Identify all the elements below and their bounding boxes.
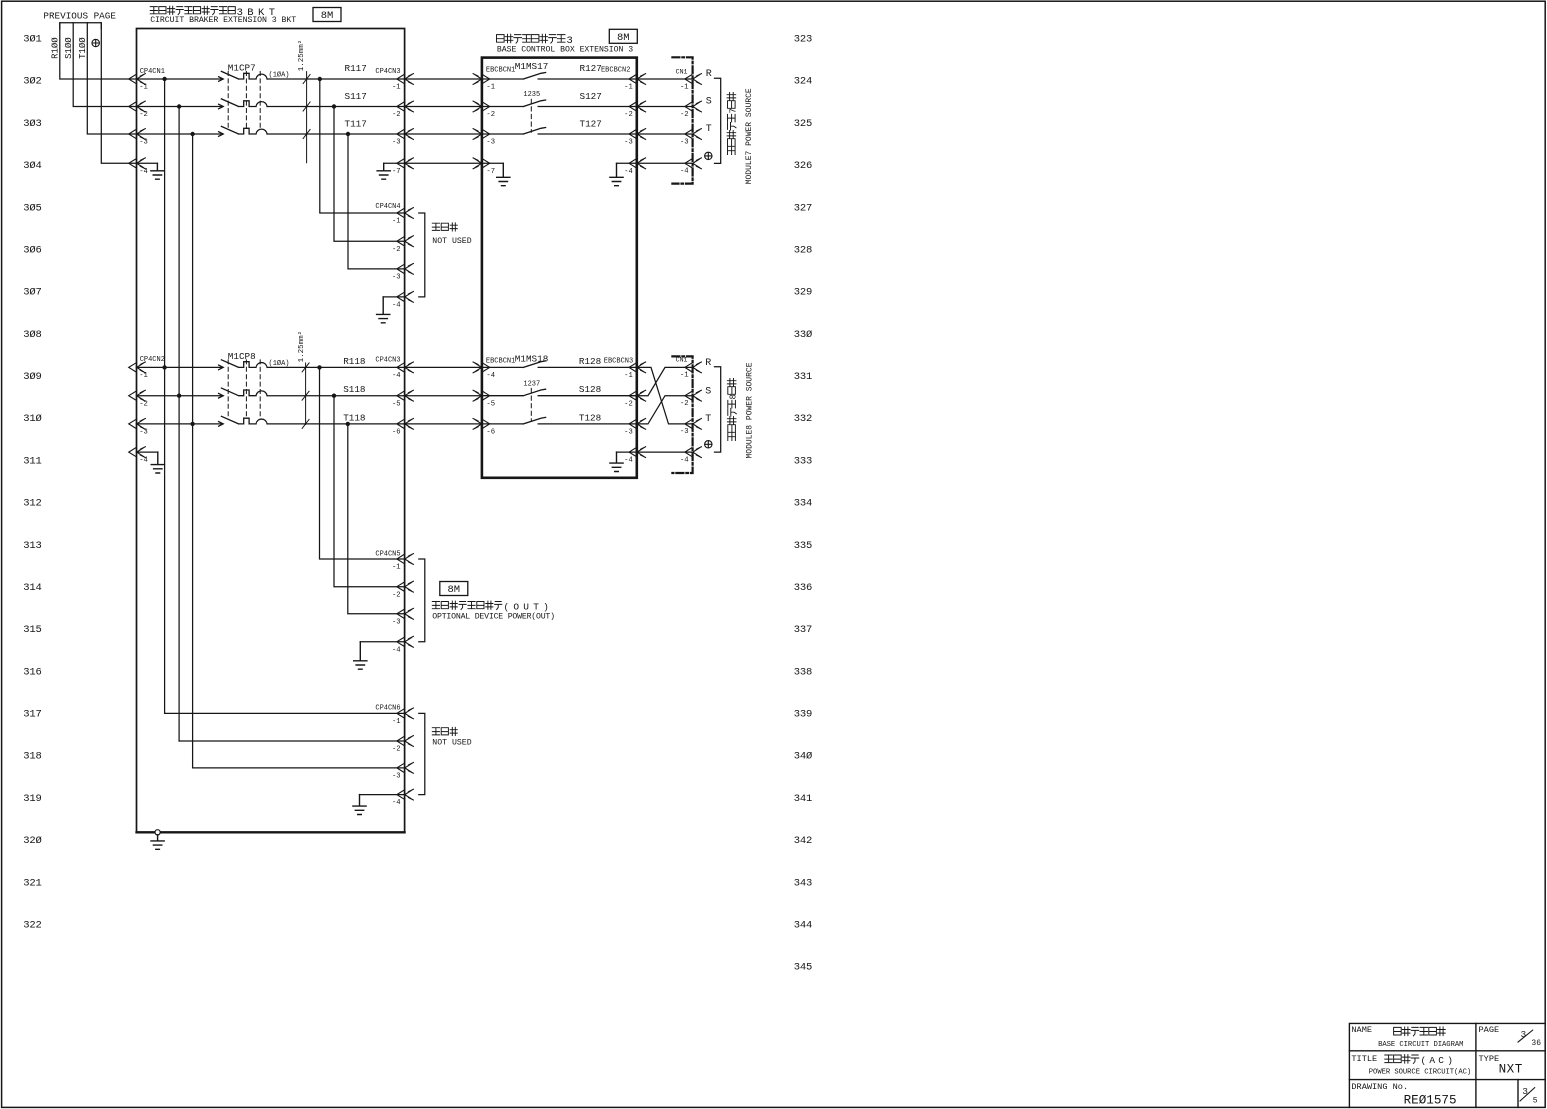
svg-text:-7: -7 [486,168,495,176]
svg-text:-4: -4 [486,372,495,380]
base control box extension outline (thick) [482,58,637,478]
svg-text:3Ø6: 3Ø6 [23,244,41,256]
junction S117 tap [177,104,181,108]
label module8 power source (japanese, rotated) [727,379,738,441]
svg-text:8: 8 [729,394,739,399]
circuit breaker M1CP8 (3-pole) [219,360,268,370]
ground at CP4CN2-4 [151,452,164,473]
connector CN1 module7 pin -4 [685,158,702,169]
ground at CP4CN1-4 [151,163,164,179]
connector CP4CN3 pin -1 [397,74,414,85]
svg-text:-1: -1 [680,372,689,380]
svg-text:-2: -2 [680,111,689,119]
svg-text:-4: -4 [139,168,148,176]
svg-text:BASE CIRCUIT DIAGRAM: BASE CIRCUIT DIAGRAM [1378,1041,1463,1049]
circuit breaker extension box outline [137,29,405,833]
svg-text:CP4CN4: CP4CN4 [375,203,400,211]
connector CP4CN4 pin -4 [397,292,414,303]
CP4CN1-4 ground stub [137,162,158,164]
svg-text:NOT USED: NOT USED [432,237,471,246]
svg-text:-1: -1 [139,372,148,380]
connector CP4CN1 pin -3 [129,129,146,140]
wire R118 segment [267,366,405,368]
connector CN1 module7 pin -2 [685,101,702,112]
connector CP4CN3 pin -6 [397,419,414,430]
connector CP4CN1 pin -4 [129,158,146,169]
svg-text:DRAWING No.: DRAWING No. [1351,1082,1408,1092]
svg-text:34Ø: 34Ø [794,751,812,763]
svg-text:M1CP8: M1CP8 [228,351,256,362]
wire EBCBCN3-4 to CN1-4 [637,451,693,453]
svg-text:1237: 1237 [523,380,540,388]
contactor M1MS18 pole T [482,417,637,424]
svg-text:-7: -7 [392,168,401,176]
svg-text:R118: R118 [343,356,365,367]
svg-text:T: T [705,414,711,425]
svg-text:-1: -1 [392,84,401,92]
svg-text:3Ø9: 3Ø9 [23,371,41,383]
svg-text:(AC): (AC) [1421,1055,1457,1066]
svg-text:EBCBCN3: EBCBCN3 [604,358,633,366]
EBCBCN2-4 ground stub [617,162,637,164]
svg-text:3: 3 [1521,1029,1527,1040]
svg-text:-3: -3 [392,274,401,282]
contactor M1MS17 pole S [482,100,637,107]
svg-text:-4: -4 [392,646,401,654]
svg-text:326: 326 [794,160,812,172]
svg-text:-3: -3 [139,139,148,147]
title block column divider [1475,1023,1477,1107]
svg-text:7: 7 [728,108,738,113]
svg-text:-2: -2 [392,246,401,254]
connector EBCBCN2 pin -1 [629,74,646,85]
svg-text:-3: -3 [680,138,689,146]
label not-used (japanese) CP4CN6 [432,727,457,735]
wire tap R vertical to CP4CN6-1 [164,79,166,713]
wire EBCBCN2-2 to CN1-2 [637,106,693,108]
svg-text:315: 315 [23,624,41,636]
name japanese: base circuit diagram [1394,1027,1446,1036]
module7 CN1 boundary (dash-dot) [672,57,692,183]
connector EBCBCN1 pin -3 [473,129,490,140]
svg-text:318: 318 [23,751,41,763]
svg-text:-2: -2 [139,400,148,408]
bracket CP4CN5 optional power [419,559,425,642]
svg-text:-5: -5 [486,400,495,408]
svg-text:343: 343 [794,877,812,889]
wire R117-R127 between boxes [405,78,482,80]
wire tap R horizontal to CP4CN6-1 [165,712,405,714]
svg-text:-3: -3 [392,618,401,626]
svg-text:-1: -1 [392,564,401,572]
svg-text:1.25mm²: 1.25mm² [297,331,306,363]
svg-text:327: 327 [794,202,812,214]
connector CP4CN6 pin -4 [397,789,414,800]
svg-text:335: 335 [794,540,812,552]
svg-text:1235: 1235 [523,91,540,99]
connector CN1 module8 pin -3 [685,419,702,430]
wire EBCBCN3-3 to CN1-2 (crossover) [637,396,693,424]
svg-text:319: 319 [23,793,41,805]
svg-text:-1: -1 [392,218,401,226]
svg-text:3Ø4: 3Ø4 [23,160,41,172]
svg-text:POWER SOURCE CIRCUIT(AC): POWER SOURCE CIRCUIT(AC) [1369,1069,1471,1077]
connector CP4CN1 pin -2 [129,101,146,112]
svg-text:R1ØØ: R1ØØ [50,37,60,59]
M1MS17 linkage dashed [530,99,532,132]
CP4CN2-4 ground stub [137,451,158,453]
label S100 (rotated) [64,37,74,59]
ground at CP4CN4-4 [377,297,390,323]
wire-size label 1.25mm2 (module8) [297,331,306,363]
svg-text:-3: -3 [139,429,148,437]
connector EBCBCN3 pin -1 [629,362,646,373]
svg-text:NAME: NAME [1351,1025,1372,1035]
label module7 power source (japanese, rotated) [727,93,738,155]
wire tap S horizontal to CP4CN6-2 [179,740,405,742]
svg-text:-1: -1 [486,84,495,92]
circuit breaker M1CP7 (3-pole) [219,71,268,81]
earth symbol (module7) [705,152,712,159]
wire T117-T127 between boxes [405,133,482,135]
title block small column divider [1517,1080,1519,1108]
svg-text:342: 342 [794,835,812,847]
svg-text:1.25mm²: 1.25mm² [297,40,306,72]
contactor M1MS17 pole R [482,73,637,80]
svg-text:323: 323 [794,34,812,46]
svg-text:T117: T117 [345,118,367,129]
svg-text:MODULE8 POWER SOURCE: MODULE8 POWER SOURCE [746,362,755,458]
svg-text:PREVIOUS PAGE: PREVIOUS PAGE [43,11,116,22]
svg-text:-3: -3 [624,139,633,147]
connector CP4CN2 pin -2 [129,390,146,401]
svg-text:-4: -4 [680,456,689,464]
svg-text:S: S [706,97,712,108]
connector EBCBCN1 bottom pin -5 [473,390,490,401]
connector EBCBCN3 pin -4 [629,447,646,458]
svg-text:345: 345 [794,962,812,974]
svg-text:336: 336 [794,582,812,594]
svg-text:M1MS18: M1MS18 [515,354,548,365]
connector CP4CN5 pin -1 [397,554,414,565]
wire tap T horizontal to CP4CN6-3 [193,767,405,769]
junction CP4CN5 tap R [317,365,321,369]
contactor M1MS17 pole T [482,128,637,135]
svg-text:322: 322 [23,920,41,932]
wire CP4CN2-3 to breaker [137,423,223,425]
wire CP4CN1-1 to breaker [137,78,223,80]
svg-text:332: 332 [794,413,812,425]
svg-text:(OUT): (OUT) [504,601,554,612]
svg-text:339: 339 [794,709,812,721]
svg-text:S1ØØ: S1ØØ [64,37,74,59]
connector CP4CN4 pin -3 [397,264,414,275]
module8 CN1 boundary (dash-dot) [672,356,692,473]
connector EBCBCN1 pin -7 [473,158,490,169]
connector CP4CN4 pin -1 [397,208,414,219]
svg-text:-3: -3 [392,139,401,147]
svg-text:R: R [706,69,712,80]
ground at EBCBCN3-4 [610,452,623,471]
svg-text:T: T [706,124,712,135]
svg-text:S: S [705,386,711,397]
svg-text:331: 331 [794,371,812,383]
svg-text:-2: -2 [680,400,689,408]
svg-text:5: 5 [1533,1097,1538,1106]
connector CP4CN3 pin -2 [397,101,414,112]
svg-text:32Ø: 32Ø [23,835,41,847]
connector EBCBCN2 pin -3 [629,129,646,140]
wire to CP4CN5-2 [334,396,405,587]
svg-text:-4: -4 [139,457,148,465]
wire tap S vertical to CP4CN6-2 [178,107,180,742]
svg-text:CN1: CN1 [676,69,688,76]
svg-text:EBCBCN1: EBCBCN1 [486,67,515,75]
bracket module8 power source [715,367,721,452]
svg-text:T128: T128 [579,412,601,423]
label not-used (japanese) CP4CN4 [432,223,457,231]
connector CP4CN5 pin -4 [397,636,414,647]
8M box (left) [313,8,341,22]
connector EBCBCN1 bottom pin -4 [473,362,490,373]
svg-text:338: 338 [794,666,812,678]
connector CP4CN6 pin -3 [397,763,414,774]
connector EBCBCN2 pin -2 [629,101,646,112]
wire EBCBCN2-4 to CN1-4 [637,162,693,164]
svg-text:EBCBCN1: EBCBCN1 [486,358,515,366]
title block row divider 2 [1349,1079,1545,1081]
svg-text:3Ø3: 3Ø3 [23,118,41,130]
bracket module7 power source [715,78,721,163]
left box chassis ground [155,830,160,835]
svg-text:341: 341 [794,793,812,805]
connector EBCBCN3 pin -3 [629,419,646,430]
svg-text:-4: -4 [392,799,401,807]
left box bottom edge (thick) [137,831,405,833]
wire CP4CN1-2 to breaker [137,106,223,108]
CP4CN5-4 ground stub [360,641,404,643]
svg-text:-4: -4 [392,302,401,310]
junction CP4CN5 tap S [332,394,336,398]
svg-text:8M: 8M [321,10,334,22]
svg-text:3Ø8: 3Ø8 [23,329,41,341]
connector CN1 module7 pin -1 [685,74,702,85]
wire T100 vertical+horizontal to CP4CN1-3 [87,23,136,134]
protective-earth symbol on wire 4 [92,39,99,46]
svg-text:313: 313 [23,540,41,552]
wire T118-T128 between boxes [405,423,482,425]
svg-text:-2: -2 [624,400,633,408]
svg-text:317: 317 [23,709,41,721]
connector CN1 module8 pin -2 [685,390,702,401]
title base control box extension 3 (japanese) [497,34,566,43]
svg-text:(1ØA): (1ØA) [269,71,290,80]
connector CP4CN6 pin -1 [397,708,414,719]
bracket CP4CN4 not-used [419,213,425,297]
EBCBCN1-7 ground stub [482,162,503,164]
wire to CP4CN5-1 [320,367,405,559]
svg-text:-2: -2 [392,591,401,599]
wire R118-R128 between boxes [405,366,482,368]
svg-text:S117: S117 [345,91,367,102]
connector CP4CN3 pin -3 [397,129,414,140]
svg-text:-3: -3 [680,428,689,436]
svg-text:3Ø7: 3Ø7 [23,287,41,299]
connector CP4CN1 pin -1 [129,74,146,85]
svg-text:EBCBCN2: EBCBCN2 [601,67,630,75]
svg-text:M1MS17: M1MS17 [515,61,548,72]
junction T118 feed [190,422,194,426]
wire PE link top between boxes [405,162,482,164]
svg-text:NXT: NXT [1499,1062,1523,1076]
connector CP4CN2 pin -1 [129,362,146,373]
svg-text:R128: R128 [579,356,601,367]
wire EBCBCN3-1 to CN1-3 (crossover) [637,367,693,424]
wire T117 segment [267,133,405,135]
svg-text:328: 328 [794,244,812,256]
svg-text:324: 324 [794,76,812,88]
connector CP4CN3 pin -4 [397,362,414,373]
junction CP4CN5 tap T [346,422,350,426]
label R100 (rotated) [50,37,60,59]
title japanese: power circuit AC [1385,1055,1419,1064]
svg-text:TYPE: TYPE [1479,1054,1500,1064]
wire S118-S128 between boxes [405,395,482,397]
svg-text:TITLE: TITLE [1351,1054,1377,1064]
title circuit breaker extension 3 BKT (japanese) [150,6,235,15]
wire S100 vertical+horizontal to CP4CN1-2 [73,23,136,107]
svg-text:337: 337 [794,624,812,636]
svg-text:-2: -2 [392,111,401,119]
CP4CN3-7 ground stub [384,162,405,164]
CP4CN6-4 ground stub [360,794,405,796]
label optional device power OUT (japanese) [432,601,502,610]
svg-text:-1: -1 [680,83,689,91]
svg-text:8M: 8M [617,32,630,44]
svg-text:-2: -2 [624,111,633,119]
ground at EBCBCN2-4 [610,163,623,185]
svg-text:S128: S128 [579,384,601,395]
connector CN1 module8 pin -1 [685,362,702,373]
svg-text:-2: -2 [392,746,401,754]
svg-text:33Ø: 33Ø [794,329,812,341]
svg-text:8M: 8M [447,584,460,596]
svg-text:CN1: CN1 [676,357,688,364]
svg-text:31Ø: 31Ø [23,413,41,425]
svg-text:-1: -1 [624,372,633,380]
junction R118 feed [162,365,166,369]
wire S117 segment [267,106,405,108]
svg-text:-5: -5 [392,400,401,408]
svg-text:-3: -3 [392,773,401,781]
svg-text:BASE CONTROL BOX EXTENSION 3: BASE CONTROL BOX EXTENSION 3 [497,45,633,54]
junction S118 feed [177,394,181,398]
svg-text:CP4CN5: CP4CN5 [375,551,400,559]
wire S117-S127 between boxes [405,106,482,108]
bracket CP4CN6 not-used [419,713,425,794]
svg-text:-2: -2 [139,111,148,119]
svg-text:T118: T118 [343,412,365,423]
svg-text:(1ØA): (1ØA) [269,359,290,368]
svg-text:316: 316 [23,666,41,678]
svg-text:PAGE: PAGE [1479,1025,1500,1035]
contactor M1MS18 pole R [482,361,637,368]
junction CP4CN4 tap R [318,77,322,81]
junction CP4CN4 tap T [346,132,350,136]
svg-text:312: 312 [23,498,41,510]
cable bundle line module8 [302,363,309,429]
wire R100 vertical+horizontal to CP4CN1-1 [60,23,137,79]
wire S118 segment [267,395,405,397]
wire EBCBCN2-3 to CN1-3 [637,133,693,135]
svg-text:321: 321 [23,877,41,889]
8M box (optional device power) [440,582,468,596]
wire CP4CN1-3 to breaker [137,133,223,135]
connector CP4CN3 pin -5 [397,390,414,401]
svg-text:R: R [705,358,711,369]
wire EBCBCN2-1 to CN1-1 [637,78,693,80]
CP4CN4-4 ground stub [383,296,404,298]
connector EBCBCN1 bottom pin -6 [473,419,490,430]
svg-text:CP4CN6: CP4CN6 [375,705,400,713]
svg-text:NOT USED: NOT USED [432,739,471,748]
svg-text:-2: -2 [486,111,495,119]
wire to CP4CN4-1 [320,79,405,213]
svg-text:M1CP7: M1CP7 [228,63,256,74]
svg-text:-4: -4 [624,168,633,176]
wire EBCBCN3-2 to CN1-1 (crossover) [637,367,693,395]
EBCBCN3-4 ground stub [617,451,637,453]
wire to CP4CN5-3 [348,424,405,614]
svg-text:3Ø1: 3Ø1 [23,34,41,46]
svg-text:-1: -1 [392,718,401,726]
svg-text:3Ø5: 3Ø5 [23,202,41,214]
svg-text:-1: -1 [139,84,148,92]
svg-text:314: 314 [23,582,41,594]
svg-text:-4: -4 [392,372,401,380]
junction R117 tap [162,77,166,81]
earth symbol (module8) [705,441,712,448]
connector EBCBCN1 pin -1 [473,74,490,85]
ground at EBCBCN1-7 [497,163,510,185]
connector CP4CN4 pin -2 [397,236,414,247]
svg-text:3: 3 [1522,1086,1528,1097]
svg-text:333: 333 [794,455,812,467]
svg-text:-1: -1 [624,84,633,92]
connector CN1 module7 pin -3 [685,129,702,140]
svg-text:R117: R117 [345,63,367,74]
junction T117 tap [190,132,194,136]
svg-text:329: 329 [794,287,812,299]
title block row divider 1 [1349,1050,1545,1052]
connector CP4CN2 pin -4 [129,447,146,458]
svg-text:CIRCUIT BRAKER EXTENSION 3 BKT: CIRCUIT BRAKER EXTENSION 3 BKT [150,16,296,25]
connector CN1 module8 pin -4 [685,447,702,458]
svg-text:311: 311 [23,455,41,467]
wire CP4CN2-1 to breaker [137,366,223,368]
wire tap T vertical to CP4CN6-3 [192,134,194,768]
wire to CP4CN4-2 [334,107,405,242]
svg-text:344: 344 [794,920,812,932]
connector EBCBCN3 pin -2 [629,390,646,401]
svg-text:S118: S118 [343,384,365,395]
connector CP4CN5 pin -2 [397,581,414,592]
connector EBCBCN2 pin -4 [629,158,646,169]
svg-text:-3: -3 [624,429,633,437]
svg-text:OPTIONAL DEVICE POWER(OUT): OPTIONAL DEVICE POWER(OUT) [432,612,555,622]
previous-page bracket [60,23,102,29]
wire CP4CN2-2 to breaker [137,395,223,397]
